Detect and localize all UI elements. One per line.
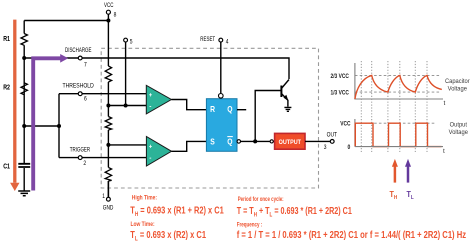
resistor R2 (21, 83, 27, 95)
resistor divider middle (105, 117, 111, 131)
svg-text:1: 1 (102, 193, 105, 200)
output plot VCC dashed level (355, 122, 435, 124)
svg-text:5: 5 (130, 39, 133, 46)
wire VCC divider rail (107, 14, 109, 197)
RESET label (200, 37, 215, 44)
Capacitor Voltage label (445, 77, 470, 85)
OUT label (327, 132, 338, 139)
pin 3 circle (330, 140, 334, 144)
svg-text:R1: R1 (3, 36, 10, 44)
ground at emitter (284, 107, 291, 111)
OUTPUT block (275, 133, 305, 149)
svg-text:OUT: OUT (327, 132, 338, 139)
THRESHOLD label (63, 83, 94, 90)
svg-text:Q: Q (227, 104, 232, 114)
op-amp comparator upper (146, 85, 171, 114)
svg-text:7: 7 (84, 62, 87, 69)
formula TH (130, 204, 224, 218)
pin 1 label (102, 193, 105, 200)
1/3 VCC label (331, 90, 349, 97)
waveform grid dotted verticals (361, 61, 427, 152)
node riser junction (57, 124, 61, 128)
wire discharge (24, 58, 289, 79)
wire OUT pin 3 (305, 140, 330, 142)
node R1-R2 junction (22, 56, 26, 60)
pin 3 label (324, 145, 327, 152)
op-amp comparator lower (146, 137, 171, 167)
VCC level label (340, 121, 350, 128)
wire base riser (255, 91, 280, 142)
svg-text:Q: Q (227, 137, 232, 147)
svg-text:t: t (443, 148, 445, 155)
wire Q stub (237, 109, 246, 111)
wire reset pin 4 (220, 42, 222, 93)
ground below C1 (18, 191, 30, 196)
cap plot 1/3 VCC dashed level (355, 91, 441, 93)
wire comparator upper to R input (171, 100, 206, 110)
svg-text:2/3 VCC: 2/3 VCC (331, 73, 349, 80)
cap plot 2/3 VCC dashed level (355, 74, 441, 76)
node R2-C1 junction (22, 124, 26, 128)
TL label (407, 189, 414, 201)
resistor R1 (21, 34, 27, 46)
svg-text:TRIGGER: TRIGGER (70, 147, 90, 154)
orange charge current arrow (13, 20, 16, 183)
svg-text:Low Time:: Low Time: (131, 221, 155, 228)
formula TL (130, 229, 206, 243)
VCC label (104, 3, 113, 10)
label R1 (3, 36, 10, 44)
formula high time header (132, 195, 157, 202)
pin 4 circle (219, 38, 223, 42)
svg-text:8: 8 (114, 12, 117, 19)
svg-text:VCC: VCC (104, 3, 113, 10)
wire top rail VCC to R1 (24, 20, 108, 22)
formula period (237, 205, 352, 219)
transistor collector diagonal (281, 80, 289, 89)
pin 6 circle threshold (78, 92, 82, 96)
svg-text:Voltage: Voltage (448, 85, 468, 93)
svg-text:R: R (210, 104, 215, 114)
svg-text:High Time:: High Time: (132, 195, 157, 202)
resistor divider upper (105, 66, 111, 82)
VCC pin circle (106, 10, 110, 14)
label C1 (3, 163, 10, 171)
svg-text:-: - (149, 103, 151, 110)
node 1/3 VCC (106, 143, 110, 147)
svg-text:R2: R2 (3, 84, 10, 92)
Qbar bubble (237, 140, 241, 144)
svg-text:+: + (149, 93, 153, 99)
pin 7 label (84, 62, 87, 69)
resistor divider lower (105, 167, 111, 181)
purple discharge current arrow (33, 58, 60, 190)
svg-text:f = 1 / T = 1 / 0.693 * (R1 +: f = 1 / T = 1 / 0.693 * (R1 + 2R2) C1 or… (237, 229, 467, 240)
node VCC junction (106, 19, 110, 23)
svg-text:Frequency :: Frequency : (237, 222, 263, 229)
wire threshold (59, 93, 146, 95)
node 2/3 VCC (106, 104, 110, 108)
reset bubble on flip-flop (219, 94, 224, 99)
wire threshold-trigger riser (58, 94, 60, 158)
TH label (390, 189, 398, 201)
IC dashed boundary (101, 48, 318, 188)
svg-text:Period for once cycle:: Period for once cycle: (238, 197, 284, 204)
svg-text:Voltage: Voltage (449, 128, 469, 136)
capacitor C1 (18, 164, 30, 167)
svg-text:Capacitor: Capacitor (445, 77, 470, 85)
GND label (103, 205, 114, 212)
formula frequency header (237, 222, 263, 229)
pin 6 label (84, 96, 87, 103)
output plot y axis (354, 119, 356, 147)
DISCHARGE label (65, 47, 92, 54)
formula frequency (237, 229, 467, 240)
svg-text:6: 6 (84, 96, 87, 103)
wire left rail (23, 21, 25, 191)
wire comparator lower to S input (172, 141, 207, 151)
svg-text:VCC: VCC (340, 121, 350, 128)
pin 5 circle (124, 38, 128, 42)
flip-flop U1 (206, 99, 237, 152)
wire GND pin 1 (107, 181, 109, 197)
formula period header (238, 197, 284, 204)
svg-text:OUTPUT: OUTPUT (279, 138, 302, 146)
pin 7 circle discharge (78, 56, 82, 60)
emitter arrowhead (283, 95, 288, 101)
pin 5 label (130, 39, 133, 46)
svg-text:DISCHARGE: DISCHARGE (65, 47, 92, 54)
transistor emitter diagonal (281, 94, 288, 107)
svg-text:C1: C1 (3, 163, 10, 171)
TH arrow orange (394, 167, 397, 183)
svg-text:0: 0 (348, 145, 351, 152)
0 level label (348, 145, 351, 152)
node control joins 2/3 (124, 104, 128, 108)
wire trigger (59, 157, 146, 159)
wire control pin 5 (125, 42, 127, 106)
svg-text:1/3 VCC: 1/3 VCC (331, 90, 349, 97)
svg-text:2: 2 (83, 160, 86, 167)
svg-text:S: S (210, 137, 215, 147)
svg-text:Output: Output (450, 121, 468, 129)
cap plot axes (355, 63, 443, 99)
output voltage square wave (355, 123, 441, 146)
pin 4 label (226, 39, 229, 46)
svg-text:-: - (149, 155, 151, 162)
wire Qbar to output (241, 140, 275, 142)
svg-text:THRESHOLD: THRESHOLD (63, 83, 94, 90)
pin 1 circle (107, 197, 111, 201)
2/3 VCC label (331, 73, 349, 80)
svg-text:GND: GND (103, 205, 114, 212)
pin 8 label (114, 12, 117, 19)
wire 2/3 VCC to comparator (108, 105, 146, 107)
svg-text:+: + (149, 144, 153, 150)
output plot x axis (355, 146, 443, 148)
node base junction (253, 139, 257, 143)
TRIGGER label (70, 147, 90, 154)
formula low time header (131, 221, 155, 228)
svg-text:4: 4 (226, 39, 229, 46)
wire 1/3 VCC to comparator (108, 144, 146, 146)
svg-text:t: t (444, 100, 446, 107)
svg-text:3: 3 (324, 145, 327, 152)
capacitor voltage waveform (355, 75, 442, 99)
transistor Q1 base bar (280, 86, 282, 98)
svg-text:TL = 0.693 x (R2) x C1: TL = 0.693 x (R2) x C1 (130, 229, 206, 242)
svg-text:RESET: RESET (200, 37, 215, 44)
TL arrow purple (407, 167, 410, 183)
pin 2 label (83, 160, 86, 167)
output node open circle (270, 140, 273, 143)
label R2 (3, 84, 10, 92)
wire R2-C1 node to riser (24, 125, 59, 127)
pin 2 circle trigger (78, 156, 82, 160)
Output Voltage label (450, 121, 468, 129)
